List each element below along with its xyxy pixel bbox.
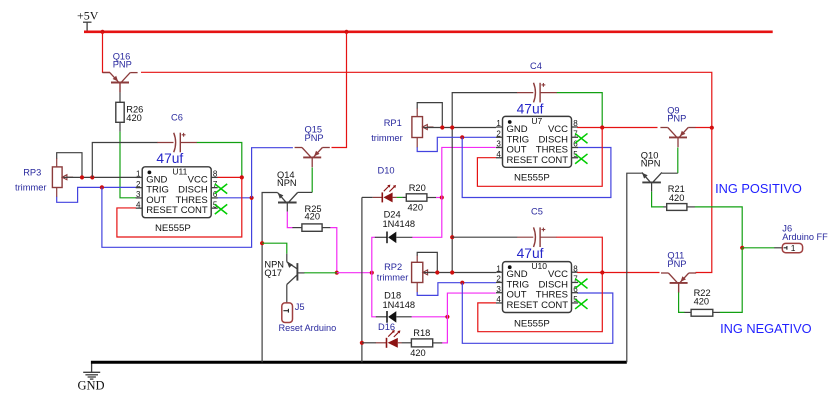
wire C5 left plate <box>452 236 517 238</box>
junction bus-Q15 <box>344 30 348 34</box>
junction RP3 top <box>80 175 84 179</box>
junction bus-Q16 <box>100 30 104 34</box>
svg-text:2: 2 <box>496 129 501 138</box>
svg-text:RESET: RESET <box>146 205 178 216</box>
wire Q17 collector to node <box>297 272 336 274</box>
junction U7 TRIG node <box>460 135 464 139</box>
wire D16 cathode lead <box>362 342 376 344</box>
svg-text:D24: D24 <box>384 209 401 219</box>
label Q9 <box>667 105 686 123</box>
svg-text:NE555P: NE555P <box>514 318 550 329</box>
svg-text:1: 1 <box>791 243 796 253</box>
wire RP1 bottom to U7 TRIG pin 2 <box>417 137 496 151</box>
wire Q11 base to R22 <box>679 283 685 313</box>
resistor R25 <box>302 224 322 231</box>
junction Q14 emitter / Q17 emitter <box>260 241 264 245</box>
wire U11 TRIG-THRES loop <box>102 187 252 247</box>
label RP1 trimmer <box>371 118 403 143</box>
wire U7 RESET-VCC loop <box>477 128 602 187</box>
svg-text:1N4148: 1N4148 <box>383 219 416 229</box>
svg-text:PNP: PNP <box>667 259 686 269</box>
svg-text:47uf: 47uf <box>517 246 544 261</box>
wire R21 left lead <box>663 206 667 208</box>
junction U7 VCC <box>600 125 604 129</box>
wire R22 right to J6 node <box>713 248 742 313</box>
transistor Q10 NPN <box>642 172 662 182</box>
svg-text:Reset Arduino: Reset Arduino <box>279 323 337 333</box>
wire Q9 collector to junction <box>696 127 712 129</box>
transistor Q14 NPN <box>278 193 298 203</box>
wire C4 right plate to U7 VCC <box>557 93 602 128</box>
junction U10 TRIG node <box>460 281 464 285</box>
svg-text:420: 420 <box>408 203 424 213</box>
wire R20 right to OUT node <box>427 197 442 199</box>
resistor R26 <box>116 102 124 122</box>
wire U11 VCC pin 8 <box>218 176 242 178</box>
junction U10 VCC <box>600 270 604 274</box>
diode D18 <box>376 311 412 323</box>
wire R21 right to J6 node <box>687 207 742 248</box>
diode D24 <box>375 232 413 244</box>
svg-text:420: 420 <box>669 193 685 203</box>
wire RP3 wiper to U11 GND pin 1 <box>63 176 136 178</box>
svg-text:3: 3 <box>136 190 141 199</box>
wire U10 RESET-VCC loop <box>478 273 603 332</box>
svg-text:trimmer: trimmer <box>371 133 403 143</box>
connector J6 <box>782 243 802 253</box>
resistor R20 <box>406 194 427 201</box>
wire Q9 junction down to Q11 <box>696 128 712 273</box>
svg-text:C5: C5 <box>531 207 543 217</box>
svg-text:GND: GND <box>78 379 105 393</box>
wire R26 to U11 OUT pin 3 <box>120 122 136 198</box>
junction TRIG node <box>100 185 104 189</box>
IC U11 NE555P <box>136 166 228 217</box>
junction THRES node <box>250 196 254 200</box>
svg-text:D16: D16 <box>378 322 395 332</box>
svg-text:2: 2 <box>136 180 141 189</box>
junction RP2 top <box>435 270 439 274</box>
wire RP3 top terminal loop <box>57 153 82 178</box>
wire Q17 emitter to GND line <box>262 243 287 262</box>
wire Q10 base to R21 <box>652 182 664 207</box>
svg-text:PNP: PNP <box>305 133 324 143</box>
svg-text:8: 8 <box>573 119 578 128</box>
svg-text:PNP: PNP <box>113 60 132 70</box>
wire Q16 base to R26 <box>119 83 121 103</box>
wire R18 right lead <box>433 342 443 344</box>
label R18 420 <box>410 328 430 358</box>
label R21 420 <box>668 184 685 203</box>
junction J6 node <box>740 246 744 250</box>
svg-text:R18: R18 <box>413 328 430 338</box>
junction diode branch <box>370 271 374 275</box>
svg-text:RESET: RESET <box>507 300 539 311</box>
wire U11 RESET-VCC loop <box>117 177 242 237</box>
transistor Q9 PNP <box>660 128 695 148</box>
wire D10 to R20 <box>397 196 407 198</box>
wire D10 cathode to GND line <box>362 197 373 362</box>
wire C5 right plate to U10 VCC <box>556 237 602 272</box>
wire GND bus <box>91 361 627 364</box>
svg-text:+5V: +5V <box>77 8 99 22</box>
wire +5V to Q16 emitter <box>103 32 111 73</box>
label D24 1N4148 <box>383 209 416 229</box>
svg-text:47uf: 47uf <box>517 102 544 117</box>
label Q10 <box>641 150 661 168</box>
svg-text:C6: C6 <box>171 112 183 122</box>
IC U10 NE555P <box>496 261 588 312</box>
svg-text:C4: C4 <box>530 61 542 71</box>
label D18 1N4148 <box>383 291 416 310</box>
wire U7 OUT down to D24 <box>412 147 496 237</box>
wire R25 left lead <box>292 227 302 229</box>
wire RP3 bottom to U11 TRIG pin 2 <box>57 187 136 202</box>
svg-text:NPN: NPN <box>277 178 297 188</box>
svg-text:RP3: RP3 <box>23 167 41 177</box>
junction D18-OUT <box>445 315 449 319</box>
label R22 420 <box>694 288 711 306</box>
wire RP2 bottom to U10 TRIG pin 2 <box>417 283 496 296</box>
wire Q10 emitter to GND <box>627 173 642 362</box>
resistor R21 <box>667 204 687 211</box>
resistor R18 <box>411 339 432 347</box>
svg-text:8: 8 <box>213 170 218 179</box>
junction C5 left <box>450 235 454 239</box>
junction RP1 top <box>440 125 444 129</box>
svg-text:ING POSITIVO: ING POSITIVO <box>715 181 802 196</box>
junction U11 VCC <box>240 175 244 179</box>
junction C5 column pin1 <box>450 270 454 274</box>
svg-text:RESET: RESET <box>507 155 539 166</box>
junction D16 branch <box>360 341 364 345</box>
trimmer RP3 <box>52 167 73 188</box>
wire branch up to D24 anode <box>372 237 375 272</box>
svg-text:PNP: PNP <box>667 113 686 123</box>
svg-text:Arduino FF: Arduino FF <box>782 232 828 242</box>
wire node to diodes column <box>337 272 372 274</box>
svg-text:1: 1 <box>496 264 501 273</box>
junction Q17 collector node <box>335 271 339 275</box>
LED D16 <box>376 330 402 348</box>
wire Q9 base to Q10 collector <box>677 148 679 174</box>
svg-text:1: 1 <box>496 119 501 128</box>
svg-text:RP2: RP2 <box>384 262 402 272</box>
svg-text:R20: R20 <box>409 183 426 193</box>
label R25 420 <box>305 204 322 221</box>
wire C6 right plate to U11 VCC <box>197 143 242 178</box>
svg-text:U7: U7 <box>531 116 542 126</box>
wire Q14 base to R25 <box>287 203 292 228</box>
wire RP1 top terminal loop <box>417 103 442 128</box>
wire +5V bus <box>84 30 773 33</box>
wire Q14 emitter to GND <box>262 193 277 363</box>
wire Q17 base to J5 <box>286 285 288 303</box>
svg-text:RP1: RP1 <box>384 118 402 128</box>
junction C4 column pin1 <box>450 125 454 129</box>
wire RP2 wiper to U10 GND pin 1 <box>424 272 496 274</box>
wire J6 node to connector <box>742 247 782 249</box>
wire D16 to R18 <box>402 342 412 344</box>
resistor R22 <box>691 309 713 316</box>
IC U7 NE555P <box>496 116 588 167</box>
transistor Q11 PNP <box>661 273 696 293</box>
wire U10 VCC pin 8 <box>577 272 659 274</box>
svg-text:U11: U11 <box>172 166 187 176</box>
wire U7 VCC pin 8 <box>577 127 657 129</box>
wire RP1 wiper to U7 GND pin 1 <box>423 127 496 129</box>
svg-text:4: 4 <box>136 200 141 209</box>
wire C6 left plate to GND node <box>92 143 157 178</box>
svg-text:4: 4 <box>496 295 501 304</box>
svg-text:trimmer: trimmer <box>15 182 47 192</box>
label R26 420 <box>126 105 143 123</box>
label RP3 trimmer <box>15 167 47 192</box>
wire D18 cathode to U10 OUT node <box>412 316 448 318</box>
svg-text:ING NEGATIVO: ING NEGATIVO <box>720 321 812 336</box>
wire R22 left lead <box>684 311 691 313</box>
capacitor C6 <box>157 133 197 153</box>
wire U7 TRIG-THRES loop <box>462 137 611 197</box>
svg-text:D10: D10 <box>378 166 395 176</box>
wire Q15 emitter to +5V bus <box>332 32 347 148</box>
svg-text:420: 420 <box>410 348 426 358</box>
transistor Q16 PNP <box>102 73 137 93</box>
junction R20-D24-OUT <box>440 195 444 199</box>
svg-text:4: 4 <box>496 150 501 159</box>
power +5V symbol <box>77 8 99 31</box>
svg-text:NE555P: NE555P <box>514 172 550 183</box>
wire Q16 collector to Q9 column <box>141 72 712 127</box>
svg-text:Q17: Q17 <box>264 268 282 278</box>
capacitor C5 <box>517 227 557 247</box>
wire Q15 base to Q14 collector <box>311 168 313 193</box>
svg-text:3: 3 <box>496 140 501 149</box>
wire Q10 collector link <box>662 172 678 174</box>
svg-text:47uf: 47uf <box>156 151 183 166</box>
svg-text:U10: U10 <box>531 261 547 271</box>
LED D10 <box>373 185 397 203</box>
svg-text:J5: J5 <box>295 302 305 312</box>
svg-text:420: 420 <box>126 113 142 123</box>
wire U10 OUT to R18 <box>442 293 496 343</box>
wire RP2 top terminal loop <box>417 252 437 272</box>
svg-text:420: 420 <box>305 212 321 222</box>
svg-text:CONT: CONT <box>181 205 208 216</box>
label R20 420 <box>408 183 426 213</box>
svg-text:1N4148: 1N4148 <box>383 300 416 310</box>
svg-text:trimmer: trimmer <box>377 273 409 283</box>
svg-text:CONT: CONT <box>541 300 568 311</box>
label Q14 <box>277 170 297 188</box>
junction C6 left <box>90 175 94 179</box>
svg-text:1: 1 <box>136 170 141 179</box>
svg-text:420: 420 <box>694 296 710 306</box>
transistor Q17 NPN rotated <box>287 262 298 285</box>
label RP2 trimmer <box>377 262 409 283</box>
transistor Q15 PNP <box>295 148 330 168</box>
trimmer RP2 <box>412 262 434 282</box>
trimmer RP1 <box>412 117 434 138</box>
svg-text:CONT: CONT <box>541 155 568 166</box>
wire Q14 collector link <box>298 191 313 193</box>
connector J5 <box>282 303 293 323</box>
label Q11 <box>667 251 686 270</box>
capacitor C4 <box>517 83 557 103</box>
svg-text:NPN: NPN <box>641 158 661 168</box>
wire C4 left plate column <box>452 93 517 273</box>
svg-text:2: 2 <box>496 275 501 284</box>
wire THRES to Q15 collector <box>252 148 293 198</box>
wire R25 right to node <box>322 228 337 273</box>
wire U10 TRIG-THRES loop <box>462 283 613 344</box>
wire branch down to D18 anode <box>372 273 376 317</box>
ground GND symbol <box>78 364 105 393</box>
label Q17 <box>264 259 284 278</box>
svg-text:3: 3 <box>496 285 501 294</box>
junction Q9 collector <box>710 126 714 130</box>
label Q15 <box>305 125 324 143</box>
svg-text:NE555P: NE555P <box>155 223 191 234</box>
